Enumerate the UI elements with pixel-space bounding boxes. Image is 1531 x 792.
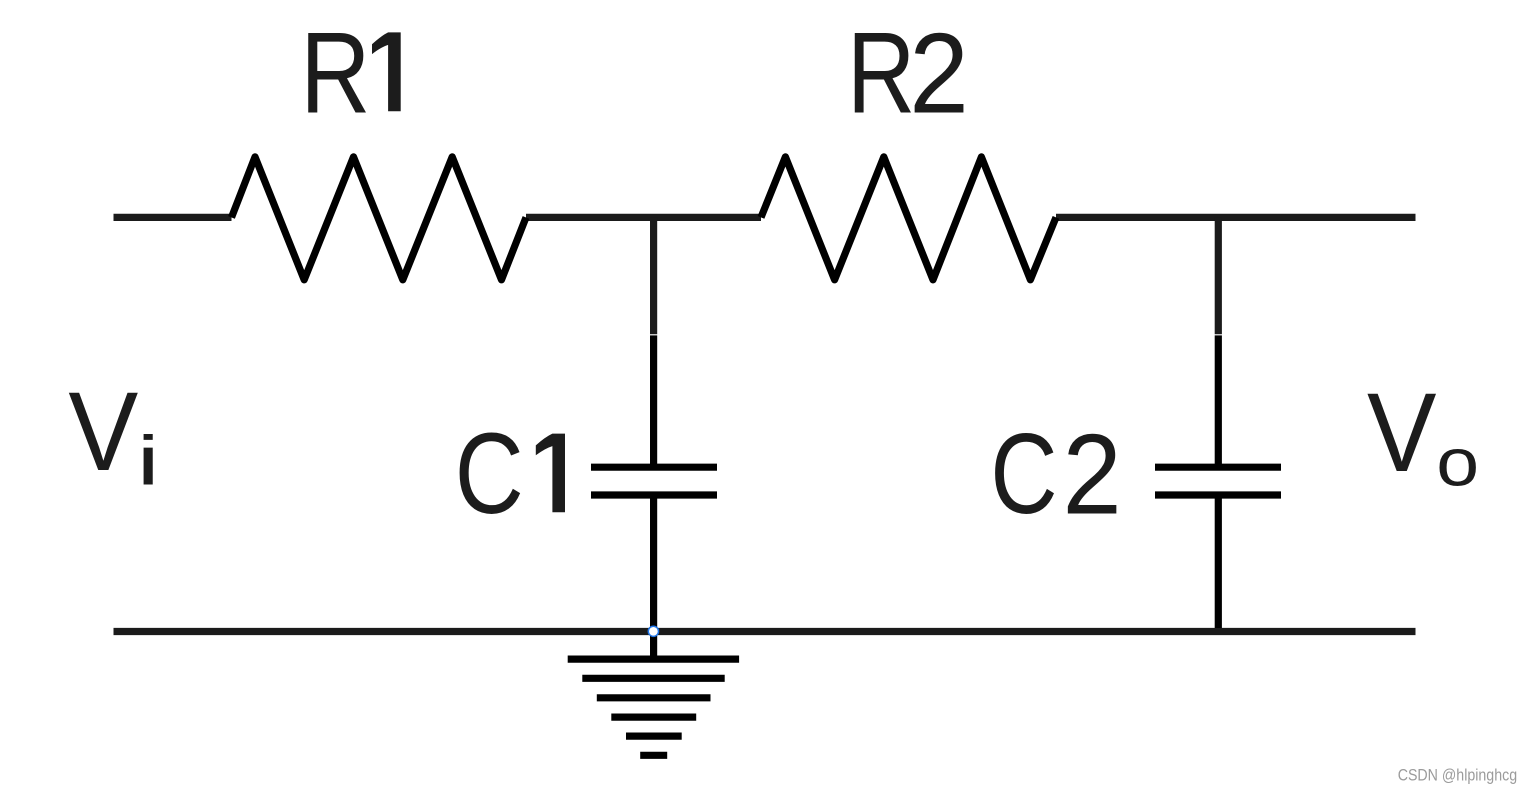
svg-text:V: V — [1367, 369, 1436, 495]
svg-text:R: R — [847, 8, 915, 137]
svg-text:2: 2 — [909, 10, 969, 137]
svg-text:C: C — [990, 411, 1057, 538]
svg-text:2: 2 — [1063, 411, 1122, 538]
svg-text:CSDN @hlpinghcg: CSDN @hlpinghcg — [1398, 766, 1517, 784]
svg-text:V: V — [68, 369, 138, 495]
svg-text:R: R — [300, 7, 370, 137]
svg-text:o: o — [1436, 425, 1479, 501]
svg-text:C: C — [455, 410, 524, 538]
svg-text:i: i — [137, 421, 160, 499]
